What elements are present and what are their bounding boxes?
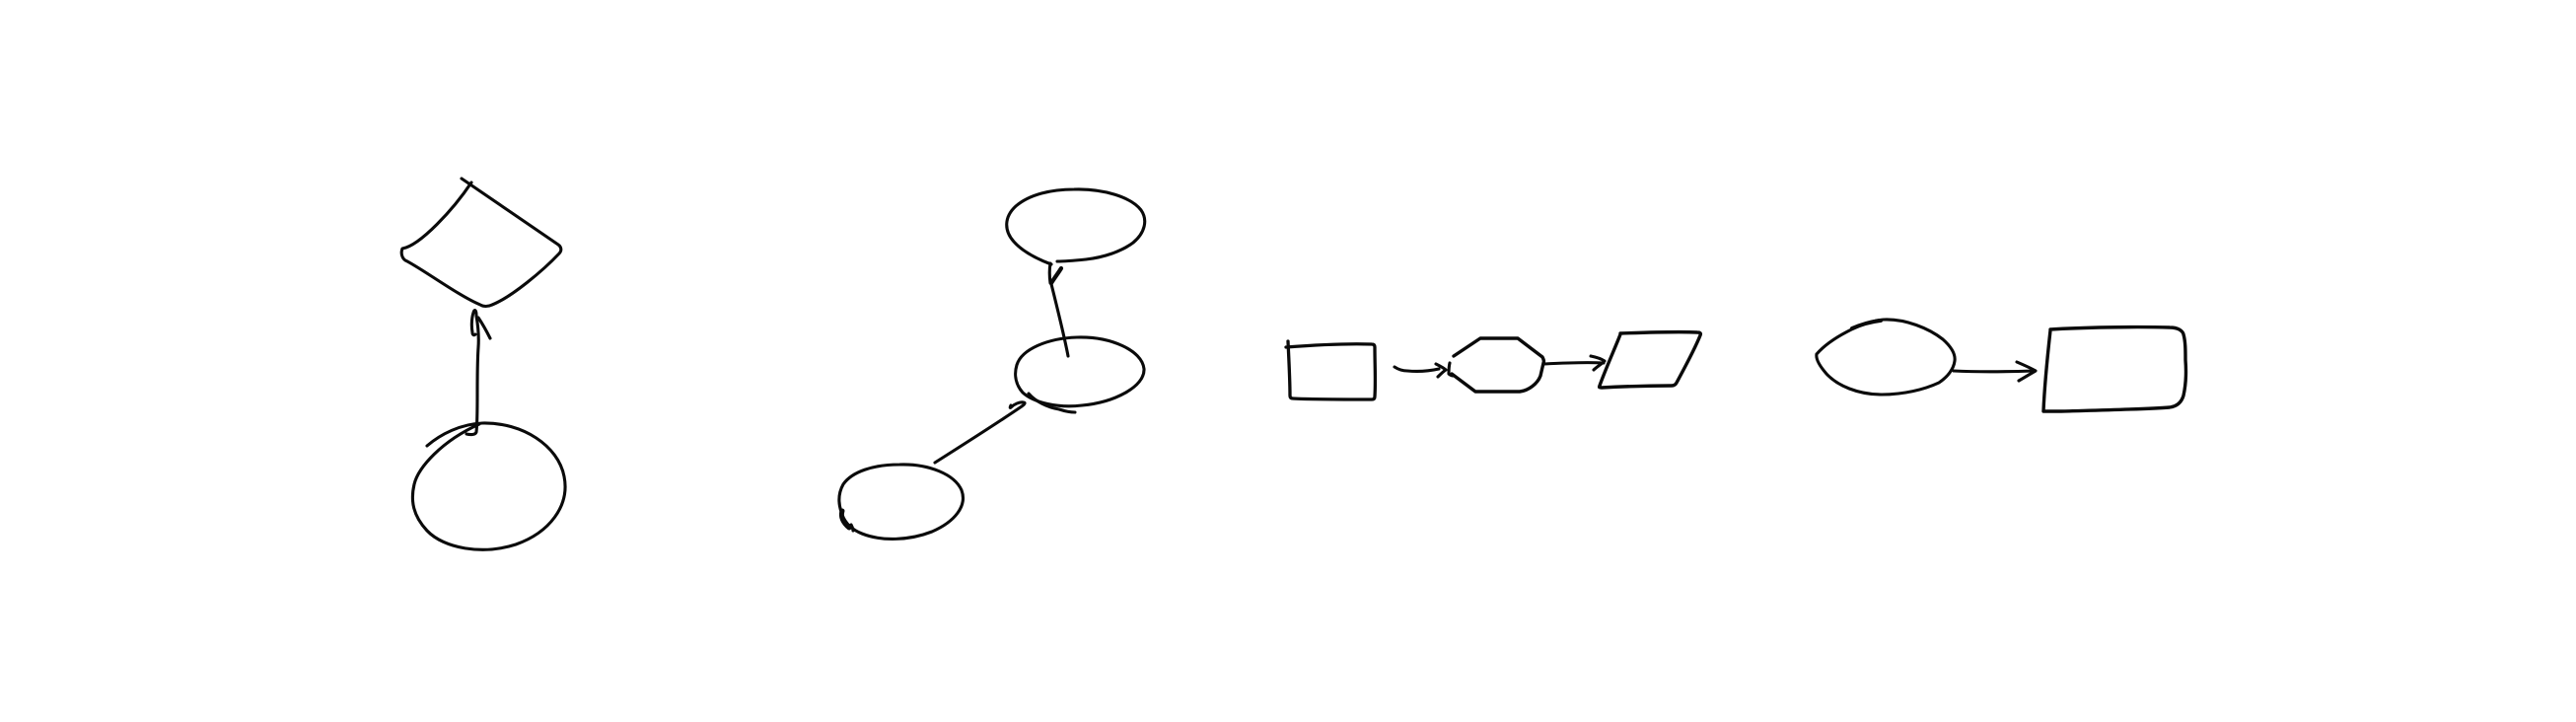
ellipse E1 (top of group 2) <box>1007 189 1145 264</box>
pigtail nub <box>851 525 853 531</box>
pigtail blob at E3 lower-left <box>841 511 849 528</box>
arrow A6 head <box>2017 362 2036 381</box>
ellipse E2 (middle of group 2) <box>1016 337 1144 406</box>
arrow A3 shaft with hairpin head (bottom ellipse to middle) <box>935 402 1025 463</box>
diamond D1 <box>401 179 561 307</box>
arrow A5 shaft (octagon to parallelogram) <box>1544 363 1604 364</box>
doubled arc at E4 top <box>1852 321 1881 328</box>
circle C1 <box>412 423 565 549</box>
arrow A4 shaft (rect to octagon) <box>1395 367 1439 371</box>
arrow A2 head diagonal <box>1051 268 1061 283</box>
arrow A2 head left side <box>1048 263 1052 283</box>
octagon start tick <box>1449 363 1454 376</box>
arrow A6 shaft (lens to rectangle) <box>1954 369 2034 373</box>
octagon O1 <box>1452 338 1543 392</box>
swoosh under E2 <box>1029 394 1075 412</box>
rectangle R1 <box>1286 341 1375 399</box>
ellipse E3 (bottom-left of group 2) <box>839 465 964 539</box>
arrow A1 right barb <box>478 318 490 338</box>
arrow A2 shaft (middle to top ellipse) <box>1051 284 1068 356</box>
arrow A4 head <box>1436 364 1446 377</box>
arrow A1 shaft with hook head (circle to diamond) <box>466 311 478 435</box>
arrow A5 head <box>1591 356 1605 370</box>
rectangle R2 <box>2043 327 2185 411</box>
parallelogram P1 <box>1600 332 1701 388</box>
ellipse E4 (lens) <box>1817 320 1955 395</box>
